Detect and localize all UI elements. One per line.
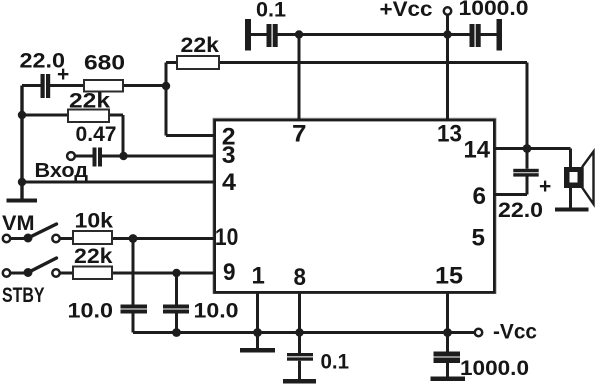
svg-text:0.1: 0.1 xyxy=(256,0,286,22)
svg-text:0.1: 0.1 xyxy=(321,351,350,374)
svg-text:8: 8 xyxy=(294,264,307,291)
svg-text:1000.0: 1000.0 xyxy=(460,357,529,380)
svg-text:10.0: 10.0 xyxy=(194,300,239,323)
svg-text:7: 7 xyxy=(292,121,307,148)
svg-text:Вход: Вход xyxy=(35,160,89,182)
svg-text:15: 15 xyxy=(435,263,463,290)
svg-text:4: 4 xyxy=(222,169,237,196)
svg-text:6: 6 xyxy=(473,183,487,210)
svg-text:22.0: 22.0 xyxy=(498,199,543,222)
svg-text:13: 13 xyxy=(437,121,462,148)
svg-text:10.0: 10.0 xyxy=(68,300,114,323)
svg-text:10k: 10k xyxy=(75,210,114,233)
svg-text:1: 1 xyxy=(252,263,265,290)
svg-text:VM: VM xyxy=(2,212,35,235)
svg-text:14: 14 xyxy=(464,137,491,164)
svg-text:5: 5 xyxy=(472,225,486,252)
svg-text:22k: 22k xyxy=(181,34,220,57)
svg-text:-Vcc: -Vcc xyxy=(493,321,537,344)
svg-text:10: 10 xyxy=(215,224,239,251)
svg-text:22k: 22k xyxy=(69,90,110,113)
svg-text:+: + xyxy=(57,63,69,86)
svg-text:3: 3 xyxy=(222,142,236,169)
svg-text:680: 680 xyxy=(84,52,125,75)
svg-text:+Vcc: +Vcc xyxy=(380,0,433,21)
svg-text:9: 9 xyxy=(223,259,236,286)
svg-text:22k: 22k xyxy=(74,245,113,268)
svg-text:1000.0: 1000.0 xyxy=(459,0,529,20)
svg-text:0.47: 0.47 xyxy=(76,123,117,146)
svg-text:STBY: STBY xyxy=(2,284,45,307)
svg-text:+: + xyxy=(539,175,551,198)
